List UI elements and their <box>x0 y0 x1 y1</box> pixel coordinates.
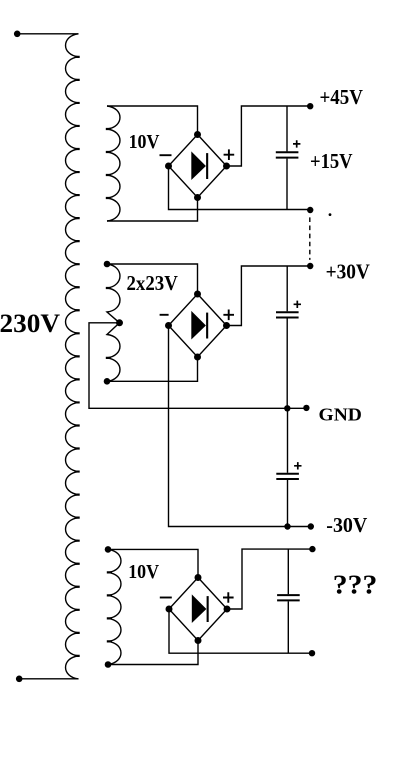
bridge rectifier B1 <box>169 135 227 198</box>
wire: bridge B2 bottom to secondary 2 bottom <box>107 357 198 381</box>
svg-text:230V: 230V <box>0 309 60 338</box>
wire: bridge B1 - output to +15V rail <box>169 166 311 210</box>
capacitor C4 plates <box>277 595 300 600</box>
node: secondary 2 centre tap <box>116 319 123 326</box>
coil loop ticks (secondary 3) <box>107 572 112 641</box>
node: bridge B3 AC bottom vertex <box>195 637 202 644</box>
polarity - sign of bridge B1 <box>160 154 172 156</box>
wire: bridge B1 bottom to secondary 1 bottom <box>107 198 198 222</box>
svg-text:???: ??? <box>333 570 378 600</box>
svg-text:10V: 10V <box>128 562 159 583</box>
svg-text:+30V: +30V <box>326 260 371 284</box>
node: GND junction with capacitor chain <box>284 405 290 411</box>
node: bridge B3 + right vertex <box>224 606 231 613</box>
dashed wire: +15V terminal to +30V terminal <box>309 217 311 260</box>
coil loop ticks (secondary 2) <box>106 288 111 358</box>
polarity + sign of bridge B1 <box>224 149 235 160</box>
node: bridge B1 - left vertex <box>165 163 172 170</box>
svg-text:2x23V: 2x23V <box>127 271 179 295</box>
svg-text:+15V: +15V <box>310 149 353 173</box>
node: secondary 2 bottom terminal <box>104 378 111 385</box>
node: ??? top terminal <box>309 546 315 552</box>
svg-text:10V: 10V <box>129 132 160 153</box>
node: bridge B1 + right vertex <box>223 163 230 170</box>
capacitor C2 plates <box>276 312 299 317</box>
node: bridge B2 + right vertex <box>223 322 230 329</box>
capacitor C1 polarity + <box>293 140 300 147</box>
bridge rectifier B2 <box>169 294 227 357</box>
node: -30V terminal <box>308 523 314 529</box>
polarity - sign of bridge B2 <box>160 314 169 316</box>
node: +30V terminal <box>307 263 313 269</box>
capacitor C1 plates <box>276 152 299 157</box>
node: bridge B1 AC top vertex <box>194 131 201 138</box>
transformer secondary winding 3 (10V) <box>108 549 121 664</box>
capacitor C3 bottom lead <box>287 480 289 527</box>
capacitor C4 top lead <box>287 549 289 594</box>
diode inside bridge B3 <box>192 594 207 623</box>
capacitor C2 polarity + <box>294 301 301 308</box>
diode inside bridge B2 <box>191 311 206 340</box>
wire: secondary 3 top to bridge B3 top <box>108 549 198 577</box>
capacitor C2 top lead <box>286 266 288 311</box>
capacitor C4 bottom lead <box>287 601 289 653</box>
node: secondary 2 top terminal <box>104 261 111 268</box>
wire: primary top lead <box>17 33 78 35</box>
polarity + sign of bridge B3 <box>223 592 234 603</box>
wire: bridge B2 + output to +30V rail <box>227 266 311 326</box>
node: -30V junction with capacitor chain <box>284 523 290 529</box>
wire: bridge B3 - output to bottom ??? rail <box>169 609 312 653</box>
node: ??? bottom terminal <box>309 650 315 656</box>
capacitor C3 plates <box>276 474 299 479</box>
node: primary bottom terminal <box>16 676 23 683</box>
node: +45V terminal <box>307 103 313 109</box>
svg-text:+45V: +45V <box>320 85 364 109</box>
node: bridge B3 AC top vertex <box>195 574 202 581</box>
node: GND terminal <box>303 405 309 411</box>
capacitor C2 bottom lead <box>286 319 288 409</box>
wire: secondary 2 top to bridge B2 top <box>107 264 198 294</box>
wire: primary bottom lead <box>19 678 78 680</box>
node: bridge B3 - left vertex <box>166 606 173 613</box>
bridge rectifier B3 <box>169 578 227 641</box>
node: bridge B2 AC top vertex <box>194 291 201 298</box>
node: secondary 3 top terminal <box>105 546 112 553</box>
capacitor C1 top lead <box>286 106 288 151</box>
wire: bridge B3 bottom to secondary 3 bottom <box>108 641 198 665</box>
svg-text:-30V: -30V <box>326 513 367 537</box>
capacitor C3 top lead <box>287 408 289 473</box>
node: primary top terminal <box>14 31 21 38</box>
coil loop ticks (primary) <box>75 57 80 656</box>
wire: bridge B1 + output to +45V rail <box>227 106 311 166</box>
node: bridge B2 AC bottom vertex <box>194 354 201 361</box>
polarity + sign of bridge B2 <box>223 310 234 321</box>
node: secondary 3 bottom terminal <box>105 661 112 668</box>
stray dot (speck) right of +15V terminal <box>329 213 332 216</box>
coil loop ticks (secondary 1) <box>106 129 111 198</box>
transformer primary winding 230V <box>66 34 79 679</box>
transformer secondary winding 1 (10V) <box>107 106 120 221</box>
wire: centre tap to GND rail <box>89 323 306 409</box>
svg-text:GND: GND <box>319 404 362 424</box>
capacitor C1 bottom lead <box>286 159 288 210</box>
polarity - sign of bridge B3 <box>160 597 172 599</box>
diode inside bridge B1 <box>191 151 206 180</box>
node: bridge B2 - left vertex <box>165 322 172 329</box>
wire: bridge B2 - output to -30V rail <box>169 326 312 527</box>
node: bridge B1 AC bottom vertex <box>194 194 201 201</box>
capacitor C3 polarity + <box>294 462 301 469</box>
wire: bridge B3 + output to top ??? rail <box>227 549 313 609</box>
transformer secondary winding 2 (2x23V, centre tapped) <box>107 264 120 381</box>
wire: secondary 1 top to bridge B1 top <box>107 106 198 135</box>
node: +15V terminal <box>307 207 313 213</box>
